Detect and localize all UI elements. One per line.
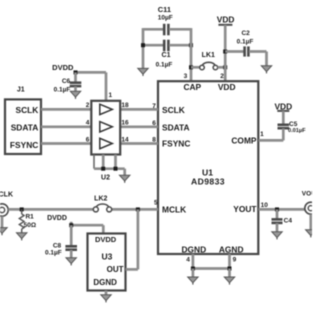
svg-text:MCLK: MCLK [162, 205, 186, 215]
svg-text:DVDD: DVDD [52, 63, 74, 72]
svg-text:DVDD: DVDD [47, 215, 67, 222]
svg-text:18: 18 [121, 102, 129, 109]
svg-text:AGND: AGND [219, 244, 244, 254]
svg-text:AD9833: AD9833 [191, 176, 225, 186]
svg-text:U3: U3 [101, 252, 112, 262]
svg-text:C8: C8 [53, 242, 62, 249]
svg-text:J1: J1 [17, 87, 25, 94]
svg-text:6: 6 [86, 137, 90, 144]
svg-text:VOUT: VOUT [302, 191, 312, 198]
svg-text:FSYNC: FSYNC [10, 140, 38, 150]
svg-text:0.1µF: 0.1µF [237, 38, 254, 45]
svg-text:YOUT: YOUT [233, 204, 257, 214]
svg-text:VDD: VDD [274, 101, 292, 111]
svg-text:SCLK: SCLK [15, 105, 38, 115]
svg-text:2: 2 [86, 102, 90, 109]
svg-text:VDD: VDD [217, 15, 235, 25]
svg-text:5: 5 [154, 200, 158, 207]
svg-text:9: 9 [233, 257, 237, 264]
svg-text:DGND: DGND [93, 278, 117, 287]
svg-text:SDATA: SDATA [162, 122, 190, 132]
svg-text:1: 1 [108, 92, 112, 99]
svg-text:0.1µF: 0.1µF [156, 61, 173, 68]
svg-text:LK1: LK1 [202, 52, 215, 59]
svg-text:14: 14 [121, 137, 129, 144]
svg-text:1: 1 [260, 131, 264, 138]
svg-text:8: 8 [152, 137, 156, 144]
svg-text:VDD: VDD [218, 82, 236, 92]
svg-text:4: 4 [186, 257, 190, 264]
svg-text:R1: R1 [25, 214, 34, 221]
svg-text:C6: C6 [62, 78, 71, 85]
svg-text:10µF: 10µF [158, 15, 173, 22]
svg-text:SCLK: SCLK [162, 105, 185, 115]
svg-text:10: 10 [261, 202, 269, 209]
svg-text:COMP: COMP [231, 135, 257, 145]
svg-text:0.1µF: 0.1µF [54, 86, 71, 93]
svg-text:2: 2 [220, 73, 224, 80]
svg-text:0.01µF: 0.01µF [288, 128, 306, 134]
svg-text:LK2: LK2 [94, 196, 107, 203]
svg-text:MCLK: MCLK [0, 192, 13, 199]
svg-text:0.1µF: 0.1µF [45, 250, 62, 257]
svg-text:C1: C1 [162, 52, 171, 59]
svg-text:OUT: OUT [107, 265, 124, 274]
svg-text:C2: C2 [241, 30, 250, 37]
svg-text:16: 16 [121, 120, 129, 127]
svg-text:C11: C11 [158, 5, 171, 14]
svg-text:DGND: DGND [181, 244, 206, 254]
svg-text:SDATA: SDATA [11, 123, 39, 133]
svg-text:FSYNC: FSYNC [162, 139, 190, 149]
svg-text:DVDD: DVDD [95, 235, 117, 244]
svg-text:7: 7 [152, 103, 156, 110]
svg-text:3: 3 [184, 73, 188, 80]
svg-text:6: 6 [152, 120, 156, 127]
svg-text:CAP: CAP [183, 82, 201, 92]
svg-text:50Ω: 50Ω [24, 222, 36, 229]
svg-text:U2: U2 [101, 175, 110, 182]
svg-text:4: 4 [86, 120, 90, 127]
svg-text:C4: C4 [284, 217, 293, 224]
